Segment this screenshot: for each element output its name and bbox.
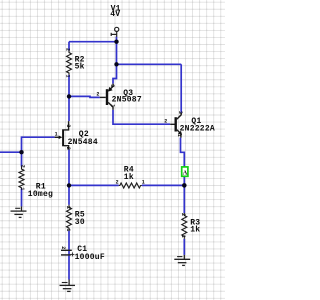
svg-text:1: 1 bbox=[64, 75, 70, 78]
svg-text:2: 2 bbox=[180, 213, 186, 216]
svg-text:2: 2 bbox=[64, 48, 70, 51]
svg-text:1: 1 bbox=[176, 134, 182, 137]
svg-text:1k: 1k bbox=[124, 173, 134, 182]
svg-text:2N5484: 2N5484 bbox=[68, 138, 98, 147]
svg-text:1: 1 bbox=[55, 132, 58, 138]
svg-text:5k: 5k bbox=[75, 63, 85, 72]
svg-text:2: 2 bbox=[65, 147, 71, 150]
svg-text:3: 3 bbox=[65, 124, 71, 127]
svg-text:1: 1 bbox=[180, 235, 186, 238]
svg-text:A: A bbox=[183, 169, 188, 176]
svg-text:1k: 1k bbox=[190, 225, 200, 234]
svg-text:10meg: 10meg bbox=[28, 190, 53, 199]
svg-text:2N2222A: 2N2222A bbox=[180, 125, 215, 134]
svg-text:2: 2 bbox=[116, 179, 119, 185]
svg-text:3: 3 bbox=[177, 111, 183, 114]
svg-text:1: 1 bbox=[109, 104, 115, 107]
svg-text:1000uF: 1000uF bbox=[75, 253, 105, 262]
svg-text:2: 2 bbox=[65, 206, 71, 209]
svg-text:2: 2 bbox=[164, 118, 167, 124]
svg-text:2: 2 bbox=[96, 91, 99, 97]
svg-text:2: 2 bbox=[60, 246, 66, 249]
svg-text:2: 2 bbox=[20, 165, 26, 168]
svg-text:30: 30 bbox=[75, 218, 85, 227]
svg-text:1: 1 bbox=[19, 187, 25, 190]
svg-text:4V: 4V bbox=[110, 10, 120, 19]
svg-text:1: 1 bbox=[65, 228, 71, 231]
svg-text:3: 3 bbox=[109, 84, 115, 87]
svg-text:1: 1 bbox=[142, 179, 145, 185]
